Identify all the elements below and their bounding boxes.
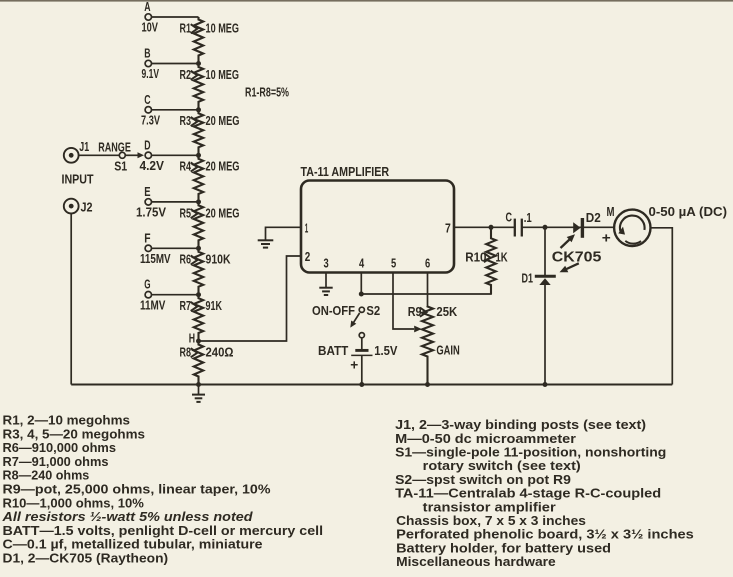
wire B tap to chain [152,63,199,65]
svg-text:S2—spst switch on pot R9: S2—spst switch on pot R9 [395,473,571,487]
ground pin3 [319,288,332,295]
svg-text:240Ω: 240Ω [206,345,234,359]
svg-text:+: + [602,230,611,246]
svg-text:J1, 2—3-way binding posts (see: J1, 2—3-way binding posts (see text) [395,418,646,432]
svg-text:TA-11—Centralab 4-stage R-C-co: TA-11—Centralab 4-stage R-C-coupled [395,487,661,501]
svg-text:R5: R5 [180,206,192,220]
svg-text:M—0-50 dc microammeter: M—0-50 dc microammeter [395,432,576,446]
junction pin7 R10 [489,225,494,230]
svg-text:C: C [144,93,150,107]
svg-text:R1-R8=5%: R1-R8=5% [245,86,289,100]
svg-text:R8: R8 [180,345,192,359]
svg-text:B: B [144,47,150,61]
svg-text:S2: S2 [366,304,380,318]
junction at B [196,61,201,66]
wire J1 to S1 [79,154,120,156]
svg-text:910K: 910K [206,253,231,267]
wire E tap to chain [152,201,199,203]
switch S1 rotary contact [114,152,127,173]
svg-text:BATT: BATT [318,344,349,358]
node B [144,47,151,67]
ground chain bottom [192,385,205,402]
resistor R5 [194,202,203,248]
node A [144,0,151,20]
svg-text:transistor amplifier: transistor amplifier [423,500,556,514]
arrow R3 [191,117,198,126]
svg-text:R4: R4 [180,160,192,174]
resistor R8 [194,341,203,385]
diode D1 [535,276,556,285]
svg-text:7.3V: 7.3V [141,113,160,127]
svg-text:11MV: 11MV [140,298,166,312]
node F [144,231,151,251]
wire D1 to bus [544,285,546,385]
svg-text:R6: R6 [180,253,192,267]
svg-text:GAIN: GAIN [436,344,459,358]
junction D1 bus [543,382,548,387]
arrow CK705 to D2 [561,234,576,248]
svg-text:1.5V: 1.5V [374,344,398,358]
svg-text:Battery holder, for battery us: Battery holder, for battery used [396,541,611,555]
arrow R2 [191,71,198,80]
svg-text:1.75V: 1.75V [136,206,167,220]
jack J1 [64,140,89,163]
ground pin1 [258,240,274,247]
svg-text:20 MEG: 20 MEG [206,206,240,220]
svg-text:rotary switch (see text): rotary switch (see text) [423,459,581,473]
wire F tap to chain [152,247,199,249]
junction at D [196,153,201,158]
svg-text:20 MEG: 20 MEG [206,160,240,174]
svg-text:J2: J2 [81,201,93,215]
svg-text:9.1V: 9.1V [142,67,160,81]
svg-text:+: + [350,357,358,373]
resistor R2 [194,64,203,110]
svg-text:D: D [144,138,150,152]
svg-text:D2: D2 [586,211,601,225]
svg-text:1: 1 [305,221,309,235]
arrow R6 [191,256,198,265]
wire R10 return [361,285,491,294]
svg-text:S1: S1 [114,160,127,174]
wire meter to right bus [651,228,673,385]
svg-text:4.2V: 4.2V [140,159,165,173]
resistor R10 [486,227,496,294]
svg-text:91K: 91K [206,299,223,313]
junction at C [196,107,201,112]
capacitor C [515,219,522,237]
junction D1 top [543,225,548,230]
svg-text:.1: .1 [524,211,532,225]
svg-text:4: 4 [359,256,364,270]
svg-text:C: C [506,211,513,225]
svg-text:ON-OFF: ON-OFF [312,304,355,318]
resistor R6 [194,248,203,294]
svg-text:25K: 25K [436,305,457,319]
switch S1 wiper arrow [126,152,145,158]
wire ground bus [71,384,672,386]
junction at G [196,292,201,297]
svg-text:R10—1,000 ohms, 10%: R10—1,000 ohms, 10% [3,496,144,510]
svg-text:R10: R10 [465,250,486,264]
diode D2 [573,218,582,238]
svg-text:3: 3 [324,256,329,270]
svg-text:R7: R7 [180,299,192,313]
arrow R9 [420,308,427,317]
wire G tap to chain [152,294,199,296]
node C [144,93,151,113]
svg-text:S1—single-pole 11-position, no: S1—single-pole 11-position, nonshorting [395,446,666,460]
junction battery bus [359,382,364,387]
junction at E [196,199,201,204]
node G [144,278,151,298]
wire battery to bus [361,355,363,384]
svg-text:R2: R2 [180,68,192,82]
svg-text:R6—910,000 ohms: R6—910,000 ohms [3,441,117,455]
arrow R10 [484,253,491,262]
svg-text:R9: R9 [408,305,422,319]
svg-text:BATT—1.5 volts, penlight D-cel: BATT—1.5 volts, penlight D-cell or mercu… [3,524,324,538]
svg-text:J1: J1 [79,140,89,154]
arrow R4 [191,163,198,172]
wire S2 to battery [361,338,363,349]
svg-text:M: M [607,205,615,219]
svg-text:10 MEG: 10 MEG [206,21,240,35]
svg-text:0-50 µA (DC): 0-50 µA (DC) [649,205,728,219]
wire pin1 to ground [266,227,302,240]
svg-text:7: 7 [445,221,451,235]
resistor R4 [194,155,203,202]
junction pin4 [359,292,364,297]
svg-text:F: F [144,231,151,245]
svg-text:10V: 10V [142,21,159,35]
wire D tap to chain [152,154,199,156]
wire C to meter [522,226,614,228]
junction at F [196,246,201,251]
svg-text:2: 2 [305,250,311,264]
wire J2 down to bus [70,214,72,385]
svg-text:RANGE: RANGE [98,141,131,155]
svg-text:G: G [144,278,150,292]
node H [189,332,201,346]
wire pin5 to R9 wiper [393,273,414,330]
wire pin4 down [360,273,362,295]
wire C tap to chain [152,109,199,111]
svg-text:R3: R3 [180,114,192,128]
arrow R5 [191,209,198,218]
svg-text:D1, 2—CK705 (Raytheon): D1, 2—CK705 (Raytheon) [3,552,169,566]
wire R9 to bus [427,362,429,385]
meter M [614,210,650,246]
junction chain bottom [196,382,201,387]
svg-text:INPUT: INPUT [62,173,94,187]
svg-text:R8—240 ohms: R8—240 ohms [3,469,90,483]
arrow R1 [191,24,198,33]
arrow R8 [191,348,198,357]
node E [144,185,151,205]
resistor R9 [422,306,433,385]
arrow R7 [191,302,198,311]
node D [144,138,151,158]
svg-text:R1, 2—10 megohms: R1, 2—10 megohms [3,414,131,428]
svg-text:TA-11 AMPLIFIER: TA-11 AMPLIFIER [301,165,390,179]
resistor R7 [194,295,203,341]
svg-text:Miscellaneous hardware: Miscellaneous hardware [396,555,556,569]
svg-text:D1: D1 [522,272,534,286]
svg-text:R1: R1 [180,21,192,35]
scan edge top [0,0,733,2]
svg-text:R9—pot, 25,000 ohms, linear ta: R9—pot, 25,000 ohms, linear taper, 10% [3,483,271,497]
wire A tap to chain [152,16,199,18]
svg-text:1K: 1K [496,250,508,264]
svg-text:All resistors ½-watt 5% unless: All resistors ½-watt 5% unless noted [1,510,253,524]
parts list left column [1,414,323,566]
wire pin2 to node H [199,256,302,341]
svg-text:A: A [144,0,150,14]
resistor R1 [194,17,203,64]
wire pin3 stub [325,273,327,288]
battery BATT [350,350,372,372]
svg-text:R7—91,000 ohms: R7—91,000 ohms [3,455,109,469]
svg-text:C—0.1 µf, metallized tubular,: C—0.1 µf, metallized tubular, miniature [3,538,263,552]
arrow CK705 to D1 [560,263,579,272]
svg-text:6: 6 [425,256,430,270]
svg-text:5: 5 [391,256,396,270]
svg-text:R3, 4, 5—20 megohms: R3, 4, 5—20 megohms [3,427,146,441]
svg-text:115MV: 115MV [140,252,171,266]
svg-text:E: E [144,185,150,199]
svg-text:10 MEG: 10 MEG [206,68,240,82]
pot R9 wiper arrow [414,326,422,333]
svg-text:H: H [189,332,195,346]
jack J2 [64,199,93,215]
svg-text:Perforated phenolic board, 3½: Perforated phenolic board, 3½ x 3½ inche… [396,528,694,542]
resistor R3 [194,110,203,156]
junction R9 bus [425,382,430,387]
svg-text:20 MEG: 20 MEG [206,114,240,128]
svg-text:Chassis box, 7 x 5 x 3 inches: Chassis box, 7 x 5 x 3 inches [396,514,586,528]
wire pin6 to R9 [427,273,429,307]
wire pin7 out [454,226,514,228]
wire D1 drop [544,227,546,275]
parts list right column [395,418,694,569]
switch S2 [350,307,364,338]
amplifier TA-11 box [301,181,454,273]
